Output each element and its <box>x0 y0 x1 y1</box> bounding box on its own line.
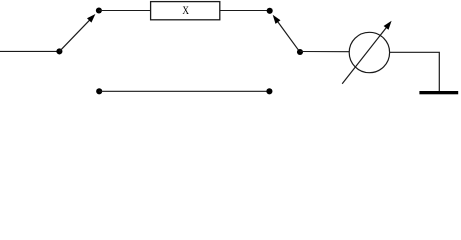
ground <box>419 91 458 94</box>
node left junction <box>56 48 62 54</box>
resistor X (box) <box>151 2 220 20</box>
wire to meter <box>300 51 349 53</box>
switch S1 blade <box>59 14 95 51</box>
meter (adjustable instrument) <box>342 21 391 84</box>
node right top terminal <box>267 8 273 14</box>
node left top terminal <box>96 7 102 13</box>
node bottom right terminal <box>266 88 272 94</box>
switch S2 blade <box>273 15 300 52</box>
wire left input <box>0 50 59 52</box>
node bottom left terminal <box>96 88 102 94</box>
wire top right <box>220 10 270 12</box>
wire top left <box>99 10 151 12</box>
node right junction <box>297 49 303 55</box>
wire bottom bypass <box>99 90 269 92</box>
svg-text:X: X <box>182 4 189 17</box>
wire meter to ground <box>390 52 440 91</box>
